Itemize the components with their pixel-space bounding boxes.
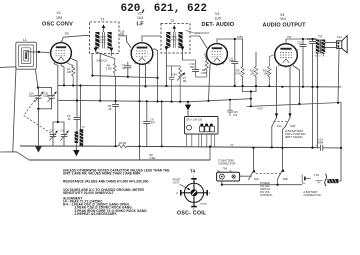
capacitor C13 bbox=[297, 39, 306, 87]
svg-text:#39446: #39446 bbox=[200, 204, 208, 206]
wire y91.5 bbox=[243, 91, 256, 93]
wire T3 primary bottom down bbox=[316, 54, 318, 148]
svg-text:470: 470 bbox=[233, 114, 238, 117]
svg-text:1M: 1M bbox=[250, 71, 254, 75]
wire V4 plate to T3 bbox=[286, 39, 316, 42]
loop antenna L1 bbox=[16, 38, 37, 69]
svg-text:10K: 10K bbox=[67, 70, 72, 74]
svg-text:10M: 10M bbox=[263, 71, 268, 75]
svg-text:.05: .05 bbox=[108, 107, 112, 111]
wire bottom bus y160 bbox=[29, 159, 210, 161]
svg-text:1R5: 1R5 bbox=[56, 16, 62, 20]
svg-text:OSC- COIL: OSC- COIL bbox=[177, 211, 207, 217]
wire V3 plate top bbox=[217, 39, 243, 42]
wire osc grid x77 bbox=[72, 59, 77, 117]
svg-text:S1A: S1A bbox=[277, 124, 282, 128]
wire connector B+ down and right bbox=[222, 181, 302, 185]
svg-text:CT455: CT455 bbox=[100, 39, 107, 41]
battery connector 7S4 bbox=[217, 170, 240, 181]
battery plug bbox=[325, 174, 341, 186]
svg-text:LS1: LS1 bbox=[337, 35, 342, 39]
capacitor C11 bbox=[229, 39, 238, 86]
svg-text:IN OUT: IN OUT bbox=[171, 39, 179, 41]
svg-text:105V: 105V bbox=[237, 35, 243, 39]
wire speaker return down bbox=[338, 49, 339, 103]
ground gang bbox=[35, 146, 42, 152]
switch S2A bbox=[249, 148, 259, 181]
svg-text:250MC: 250MC bbox=[100, 37, 107, 39]
wire screen line y75.7 bbox=[92, 76, 157, 78]
coil inset OSC COIL diagram bbox=[176, 175, 211, 212]
svg-text:.002: .002 bbox=[190, 65, 196, 69]
svg-text:40MF: 40MF bbox=[317, 141, 324, 145]
svg-text:ON + 1U4 1U5: ON + 1U4 1U5 bbox=[186, 118, 202, 121]
variable capacitor C1B bbox=[43, 88, 56, 109]
wire trimmer top link bbox=[53, 121, 64, 123]
svg-text:I-F: I-F bbox=[137, 22, 145, 28]
wire gang rotor to ground bbox=[37, 109, 39, 146]
trimmer capacitor C3 bbox=[60, 122, 68, 146]
svg-text:AUDIO OUTPUT: AUDIO OUTPUT bbox=[263, 22, 307, 28]
dashed gang coupling bbox=[24, 97, 56, 137]
wire osc plate x80.5 bbox=[80, 86, 82, 130]
output transformer T3 bbox=[315, 34, 326, 57]
wire T2 secondary to V3 grid bbox=[190, 36, 207, 48]
svg-text:4.REPEAT AS NECESSARY.: 4.REPEAT AS NECESSARY. bbox=[75, 212, 118, 216]
svg-text:A+: A+ bbox=[302, 181, 306, 185]
capacitor C9 bbox=[144, 102, 156, 147]
svg-text:S2B: S2B bbox=[283, 177, 288, 181]
wire right edge vertical x341 bbox=[340, 103, 342, 182]
tube V3 bbox=[205, 42, 228, 67]
wire L1 to V1 grid bbox=[26, 51, 49, 54]
svg-text:.047: .047 bbox=[150, 121, 156, 125]
dashed link S1 bbox=[274, 120, 287, 122]
wire T1 trimmer diagonal to R4 bbox=[96, 52, 115, 59]
wire y146 to y160 connector at x210 bbox=[209, 147, 211, 160]
capacitor C15 bbox=[227, 99, 238, 117]
svg-text:3V4: 3V4 bbox=[280, 17, 286, 21]
resistor R1 bbox=[67, 63, 75, 85]
wire V2 plate to T2 bbox=[142, 36, 161, 41]
battery connector label bbox=[218, 158, 235, 170]
svg-text:1U5: 1U5 bbox=[215, 16, 221, 20]
svg-text:470K: 470K bbox=[201, 71, 207, 75]
wire V1 grid cap to T1 bbox=[62, 36, 85, 43]
svg-text:S1B: S1B bbox=[290, 124, 295, 128]
note GREEN DOT bbox=[186, 30, 209, 35]
IF transformer T2 bbox=[161, 19, 190, 53]
svg-text:RESISTANCE VALUES ARE OHMS: RESISTANCE VALUES ARE OHMS K=1000 M=1,00… bbox=[63, 180, 149, 184]
wire L1 right side down to gang rail bbox=[35, 70, 38, 88]
svg-text:100: 100 bbox=[120, 33, 125, 36]
svg-text:30V: 30V bbox=[65, 32, 70, 36]
resistor R4 bbox=[106, 59, 117, 77]
note A battery connector bbox=[303, 190, 320, 197]
battery A 1.5V bbox=[302, 173, 323, 185]
label R6 bbox=[150, 153, 156, 160]
resistor R8 bbox=[196, 54, 209, 77]
tube V1 bbox=[49, 41, 73, 66]
wire main B+ bus bbox=[58, 85, 341, 87]
svg-text:S2A: S2A bbox=[254, 177, 259, 181]
wire V2 screen down bbox=[154, 49, 157, 102]
wire R4 node down (C8 branch) bbox=[115, 76, 117, 104]
capacitor C6 bbox=[67, 114, 80, 132]
svg-text:+: + bbox=[315, 143, 317, 147]
svg-text:V3: V3 bbox=[215, 12, 219, 16]
svg-text:CONNECTOR: CONNECTOR bbox=[303, 193, 320, 197]
wire V4 pin to bias node bbox=[294, 66, 300, 104]
svg-text:3.3M: 3.3M bbox=[150, 156, 156, 160]
svg-text:V1: V1 bbox=[57, 11, 61, 15]
svg-text:7S4: 7S4 bbox=[222, 166, 227, 170]
wire x139.5 V2 cathode down through buses bbox=[139, 65, 141, 160]
capacitor C7 bbox=[122, 62, 131, 77]
svg-text:-7V: -7V bbox=[230, 144, 234, 147]
svg-text:KC IN: KC IN bbox=[100, 42, 106, 44]
svg-text:V2: V2 bbox=[138, 12, 142, 16]
svg-text:UNIT 1 ARE MF, VALUES MORE T: UNIT 1 ARE MF, VALUES MORE THAN 1 ARE MM… bbox=[63, 171, 141, 175]
dashed link S2 bbox=[256, 172, 280, 174]
wire AVC line y100.3-101.8 bbox=[58, 100, 188, 102]
wire bottom-left corner bbox=[0, 152, 29, 160]
speaker LS1 bbox=[325, 35, 347, 53]
wire V2 filament pin to bus bbox=[145, 63, 147, 86]
wire gang bottom rail bbox=[38, 108, 51, 110]
svg-text:GREEN DOT: GREEN DOT bbox=[194, 31, 210, 35]
svg-text:L1: L1 bbox=[23, 38, 27, 42]
svg-text:9-160: 9-160 bbox=[29, 95, 36, 98]
capacitor C12 bbox=[307, 38, 318, 148]
wire T1 primary bottom stub bbox=[110, 52, 112, 56]
wire bus y146 (A-) bbox=[20, 145, 118, 147]
switch S1B bbox=[282, 113, 295, 147]
filament inset box bbox=[185, 117, 219, 147]
svg-text:CONNECTOR: CONNECTOR bbox=[218, 161, 235, 165]
wire T1 secondary bottom to AVC bbox=[91, 54, 93, 76]
svg-text:R3 68: R3 68 bbox=[119, 141, 126, 145]
oscillator coil T4 windings bbox=[75, 126, 86, 146]
tube V2 bbox=[130, 41, 155, 65]
wire AVC to bus x161.7 bbox=[161, 102, 163, 147]
svg-text:C13: C13 bbox=[297, 41, 302, 44]
capacitor C9A bbox=[166, 66, 180, 102]
junction node antenna bbox=[38, 51, 40, 53]
label V3 DET-AUDIO bbox=[202, 12, 235, 28]
switch S2B bbox=[278, 148, 288, 185]
wire y98.5 bbox=[250, 92, 252, 107]
svg-text:OSC CONV: OSC CONV bbox=[42, 21, 73, 27]
svg-text:T3: T3 bbox=[318, 34, 322, 38]
svg-text:75V: 75V bbox=[287, 35, 292, 39]
resistor R12 bbox=[263, 55, 273, 87]
wire return line continues to det stage bbox=[188, 99, 251, 102]
svg-text:C9A: C9A bbox=[172, 73, 177, 76]
note power switch bbox=[260, 181, 273, 197]
label V2 I-F bbox=[137, 12, 145, 28]
resistor R3 in bus bbox=[118, 141, 127, 148]
label V4 AUDIO OUTPUT bbox=[263, 13, 307, 28]
capacitor C14 in bus bbox=[315, 138, 341, 151]
svg-text:DOT: DOT bbox=[173, 180, 179, 184]
svg-text:1M: 1M bbox=[183, 79, 187, 83]
wire bias line -4.5V bbox=[247, 103, 341, 107]
svg-text:500 CT: 500 CT bbox=[315, 56, 323, 58]
wire T1 secondary to V2 grid bbox=[127, 36, 131, 48]
wire gang top rail bbox=[38, 87, 52, 89]
variable capacitor C1A bbox=[29, 88, 44, 109]
resistor R10 bbox=[250, 52, 258, 92]
svg-text:455KC: 455KC bbox=[171, 37, 178, 39]
svg-text:(BATT SAVER): (BATT SAVER) bbox=[285, 135, 303, 139]
wire V1 pin1 to AVC bbox=[54, 64, 58, 101]
wire T2 windings bottom bbox=[165, 51, 167, 86]
wire V3 cathode down bbox=[209, 65, 211, 101]
wire V1 pin filament down bbox=[61, 65, 64, 85]
switch S1A bbox=[272, 113, 282, 147]
svg-text:3.3M: 3.3M bbox=[106, 66, 112, 70]
svg-text:DET- AUDIO: DET- AUDIO bbox=[202, 22, 235, 28]
IF transformer T1 bbox=[84, 17, 127, 53]
label V1 OSC CONV bbox=[42, 11, 73, 27]
tube V4 bbox=[273, 42, 299, 69]
svg-text:1.5V: 1.5V bbox=[314, 173, 320, 177]
svg-text:T4: T4 bbox=[190, 169, 196, 174]
wire antenna stub at left edge bbox=[0, 66, 16, 69]
capacitor C16 label bbox=[120, 31, 125, 37]
wire T3 secondary bottom bbox=[322, 54, 324, 57]
capacitor C10 bbox=[182, 60, 198, 77]
trimmer capacitor C2 bbox=[49, 122, 57, 146]
coil inset PAINT DOT bbox=[173, 177, 191, 190]
ground det (arrow to filament box) bbox=[185, 102, 191, 117]
svg-text:4.7M: 4.7M bbox=[235, 71, 241, 75]
notes text block bbox=[63, 168, 170, 216]
svg-text:-4.5V: -4.5V bbox=[257, 107, 263, 111]
wire T1 pin down through buses bbox=[99, 54, 101, 101]
resistor R9 bbox=[235, 39, 244, 92]
svg-text:620, 621, 622: 620, 621, 622 bbox=[121, 3, 207, 15]
svg-text:S461A 10: S461A 10 bbox=[97, 60, 108, 63]
svg-text:SENSITIVITY 20,000 OHMS/VOLT: SENSITIVITY 20,000 OHMS/VOLT. bbox=[63, 191, 114, 195]
svg-text:T2: T2 bbox=[170, 19, 174, 23]
ground osc coil bbox=[73, 146, 79, 156]
volume control R7 bbox=[177, 66, 187, 102]
svg-text:T1: T1 bbox=[101, 17, 105, 21]
svg-text:1U4: 1U4 bbox=[137, 16, 143, 20]
wire connector B- to S2A bbox=[240, 175, 252, 177]
capacitor C8 bbox=[108, 104, 119, 146]
svg-text:CONTROL: CONTROL bbox=[260, 193, 273, 197]
note low battery bbox=[285, 129, 305, 139]
wire V4 filament pins down to switches bbox=[276, 67, 278, 118]
wire left AVC return vertical bbox=[13, 67, 16, 152]
svg-text:.02: .02 bbox=[67, 117, 71, 121]
